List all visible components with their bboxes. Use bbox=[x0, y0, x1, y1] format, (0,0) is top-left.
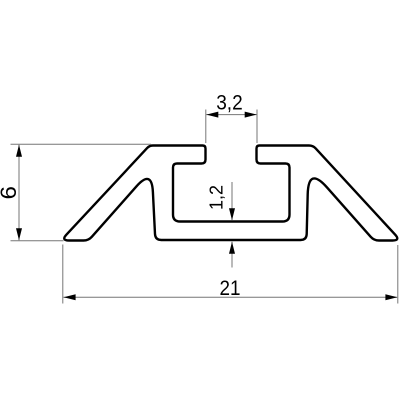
dimension 21 arrow right bbox=[385, 294, 397, 300]
dimension 1,2 arrow down bbox=[229, 208, 235, 220]
dimension 3,2 extension line right bbox=[256, 110, 258, 144]
dimension 1,2 upper line bbox=[231, 182, 233, 220]
svg-text:21: 21 bbox=[220, 276, 241, 300]
dimension 21 extension line right bbox=[397, 245, 399, 304]
dimension 21 arrow left bbox=[64, 294, 76, 300]
dimension 6 extension line bottom bbox=[11, 240, 64, 242]
dimension 21 extension line left bbox=[62, 245, 64, 304]
dimension 1,2 arrow up bbox=[229, 242, 235, 254]
dimension 3,2 extension line left bbox=[205, 110, 207, 144]
dimension 6 dimension line bbox=[18, 145, 20, 240]
dimension 21 dimension line bbox=[63, 296, 397, 298]
dimension 6 extension line top bbox=[11, 143, 152, 145]
dimension 3,2 arrow left bbox=[206, 112, 218, 118]
svg-text:6: 6 bbox=[0, 186, 21, 200]
dimension 1,2 lower line bbox=[231, 242, 233, 268]
dimension 3,2 dimension line bbox=[206, 114, 256, 116]
dimension 6 arrow bottom bbox=[16, 228, 22, 240]
svg-text:1,2: 1,2 bbox=[206, 185, 226, 210]
dimension 6 arrow top bbox=[16, 145, 22, 157]
dimension 3,2 arrow right bbox=[245, 112, 257, 118]
extrusion profile outline bbox=[64, 146, 397, 241]
svg-text:3,2: 3,2 bbox=[216, 90, 243, 114]
